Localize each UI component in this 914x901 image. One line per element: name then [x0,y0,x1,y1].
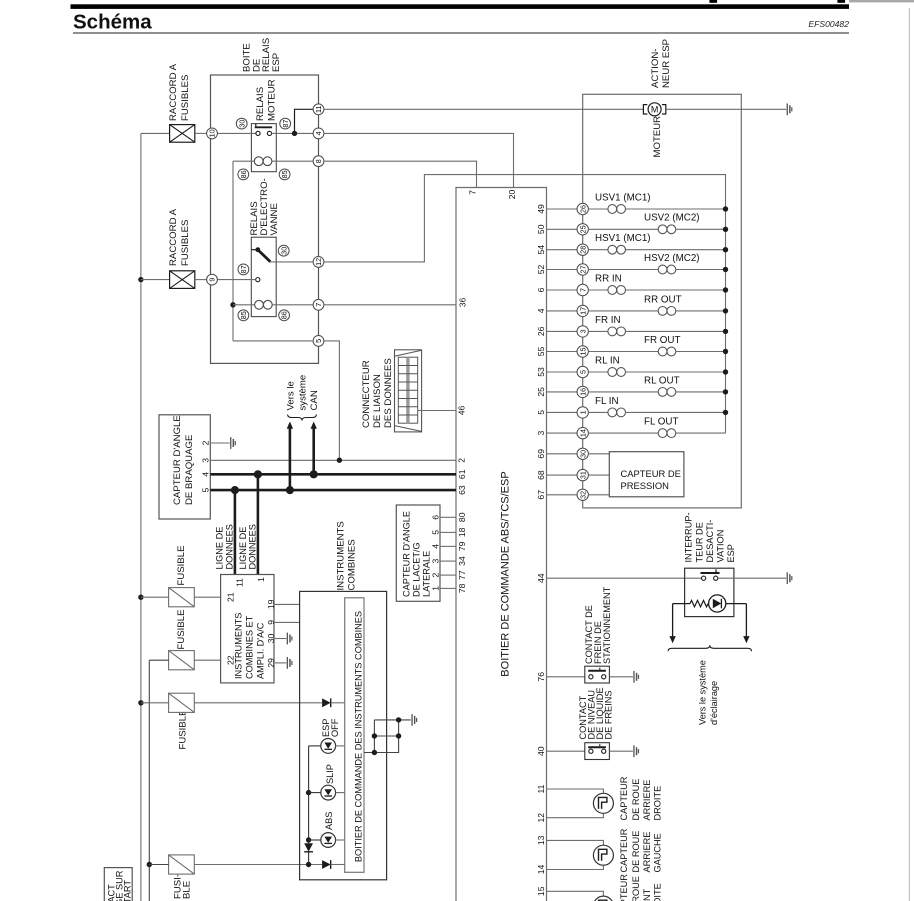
svg-text:BOITIER DE COMMANDE DES INSTRU: BOITIER DE COMMANDE DES INSTRUMENTS COMB… [353,611,363,862]
label: ESP OFF [321,718,340,737]
wire: electrovalve coil right to pin 7 [272,304,313,306]
svg-text:11: 11 [314,106,323,113]
svg-text:26: 26 [578,205,587,213]
svg-text:67: 67 [536,490,546,500]
wire: motor relay coil right to pin 8 [272,160,313,162]
wire: lateral sensor pin 2 to control pin 77 [440,574,456,576]
relay U2: RELAIS D ELECTROVANNE box [251,237,276,316]
wire: diode D3 to cluster control box [331,864,345,866]
wire: blade output to pin 12 [270,261,313,263]
node: solenoid bus junction row 49 [723,206,728,211]
svg-text:78: 78 [457,583,467,593]
node: solenoid bus junction row 26 [723,329,728,334]
wire: SLIP lamp left [309,792,321,794]
node: junction second bus / fuse 4 [147,862,152,867]
node: junction left bus / fuse 1 [138,595,143,600]
svg-text:LIGNE DE: LIGNE DE [215,527,225,570]
svg-text:1: 1 [256,577,266,582]
node: mesh junction bottom left [372,750,377,755]
svg-text:3: 3 [201,458,211,463]
wire: lateral sensor pin 5 to control pin 18 [440,531,456,533]
solenoid coil HSV2 (MC2) [658,265,676,274]
svg-text:30: 30 [279,247,288,255]
svg-text:46: 46 [457,406,467,416]
resistor R1: illumination resistor [690,600,708,606]
svg-text:BOITIER DE COMMANDE ABS/TCS/ES: BOITIER DE COMMANDE ABS/TCS/ESP [500,471,512,676]
svg-text:CAPTEUR D'ANGLE: CAPTEUR D'ANGLE [172,415,183,505]
svg-text:DE LIAISON: DE LIAISON [372,374,383,428]
wire: control pin 69 to actuator pin 30 [547,453,578,455]
svg-text:MOTEUR: MOTEUR [652,116,663,158]
wire: control pin 6 to actuator pin 7 [547,289,578,291]
wire: data line to cluster pin 11 (thick) [234,490,237,574]
node: solenoid bus junction row 53 [723,369,728,374]
wire: pin10 to relay contact [217,132,255,134]
svg-text:8: 8 [314,159,323,163]
svg-text:FR OUT: FR OUT [644,335,680,346]
ground: cluster pin 30 ground [287,633,293,645]
wire: lateral sensor pin 3 to control pin 34 [440,560,456,562]
wire: bus to fusible link 1 [141,132,170,134]
svg-text:17: 17 [578,307,587,315]
label: ACTIONNEUR ESP [650,39,672,88]
header: top rule bar [71,4,850,9]
switch S3: brake fluid level switch box [585,743,610,760]
svg-text:USV2 (MC2): USV2 (MC2) [644,213,700,224]
svg-text:15: 15 [578,348,587,356]
svg-text:d'éclairage: d'éclairage [709,681,719,725]
wire: ESP OFF lamp feed branch [308,746,310,843]
solenoid coil FL IN [608,408,626,417]
svg-text:DONNEES: DONNEES [248,524,258,569]
wire: fusible link 1 to relay box pin 10 [195,132,207,134]
svg-text:2: 2 [431,572,441,577]
label: LIGNE DE DONNEES (left) [215,524,235,569]
svg-text:PRESSION: PRESSION [621,480,669,491]
svg-text:55: 55 [536,347,546,357]
svg-text:DE ROUE: DE ROUE [631,831,641,873]
wire: lateral sensor pin 1 to control pin 78 [440,587,456,589]
wire: parking brake switch to ground [609,676,633,678]
svg-text:25: 25 [578,225,587,233]
box: ignition switch (cropped) [104,868,132,901]
svg-text:3: 3 [431,558,441,563]
wire: lateral sensor pin 6 to control pin 80 [440,516,456,518]
arrow: to CAN system (left) [287,422,293,491]
wire: solenoid HSV1 (MC1) to bus [626,249,726,251]
box: INSTRUMENTS COMBINES ET AMPLI box [221,575,274,683]
svg-text:RL OUT: RL OUT [644,375,680,386]
pin circle 28 (actuator) [577,244,588,255]
fuse F3 [169,693,195,712]
sensor B6: front right wheel speed sensor (cropped) [593,896,613,901]
svg-text:10: 10 [208,129,217,137]
svg-text:RL IN: RL IN [595,355,620,366]
wire: actuator pin 17 to solenoid RR OUT [588,310,658,312]
relay U2 normally-open terminal [256,278,260,282]
fusible link 2 [170,271,195,289]
svg-text:9: 9 [208,278,217,282]
svg-text:85: 85 [280,170,289,178]
wire: control pin 40 to fluid level switch [547,750,585,752]
svg-text:COMBINES ET: COMBINES ET [245,615,255,679]
wire: control pin 76 to parking brake switch [547,676,585,678]
svg-text:12: 12 [314,258,323,266]
label: Vers le systeme CAN [286,375,321,411]
wire: ESP OFF lamp left [309,745,321,747]
sensor B4: rear right wheel speed sensor [593,793,613,813]
wire: vertical link coil1-coil2 [232,161,234,341]
solenoid coil FL OUT [658,429,676,438]
svg-text:87: 87 [239,265,248,273]
wire: second bus vertical (fuse2 to fuse4) [148,660,150,901]
svg-text:RR IN: RR IN [595,273,622,284]
wire: pin 12 to actuator solenoid bus [324,175,726,434]
svg-text:3: 3 [578,329,587,333]
svg-text:2: 2 [201,440,211,445]
svg-text:6: 6 [431,515,441,520]
wire: solenoid FR IN to bus [626,330,726,332]
label: RACCORD A FUSIBLES (lower) [168,208,191,266]
box: BOITE DE RELAIS ESP [211,75,319,363]
solenoid coil FR IN [608,327,626,336]
fuse F2 [169,651,195,670]
node: solenoid bus junction row 6 [723,287,728,292]
svg-text:FUSIBLES: FUSIBLES [180,75,191,121]
wire: pin 7 to control unit pin 36 [324,304,456,306]
wire: link to pin 5 [233,340,313,342]
svg-text:11: 11 [235,578,245,587]
svg-text:50: 50 [536,224,546,234]
svg-text:28: 28 [578,246,587,254]
svg-text:5: 5 [431,530,441,535]
wire: cluster pin 29 to ground [274,662,286,664]
wire: control pin 13 to rear left sensor [547,840,604,845]
node: mesh junction mid left [372,733,377,738]
wire: control pin 53 to actuator pin 5 [547,371,578,373]
pin circle 5 (relay box) [313,336,324,347]
wire: motor relay coil left to vertical link [233,160,254,162]
wire: steering sensor pin 3 to control pin 2 (thin) [210,459,456,461]
svg-text:FR IN: FR IN [595,315,621,326]
svg-text:ESP: ESP [726,544,736,562]
solenoid coil RL IN [608,368,626,377]
svg-text:CAPTEUR: CAPTEUR [619,776,629,820]
svg-text:NEUR ESP: NEUR ESP [661,39,672,88]
pin circle 86 (electrovalve relay) [279,310,290,321]
pin circle 11 (relay box) [313,104,324,115]
svg-text:63: 63 [457,485,467,495]
wire: diode D2 to fuse4 line [308,852,310,864]
solenoid coil USV2 (MC2) [658,225,676,234]
label: RELAIS MOTEUR [255,79,278,121]
wire: control pin 3 to actuator pin 14 [547,432,578,434]
svg-text:76: 76 [536,672,546,682]
box: instrument cluster assembly [300,591,387,879]
svg-text:DROITE: DROITE [653,786,663,821]
wire: cluster pin 19 to cluster control box [274,603,300,605]
wire: actuator pin 14 to solenoid FL OUT [588,432,658,434]
label: CAPTEUR DE ROUE ARRIERE DROITE [619,776,663,820]
wire: solenoid FL OUT to bus [676,432,726,434]
wire: SLIP lamp to control box [336,792,345,794]
node: mesh junction mid right [396,733,401,738]
svg-text:EFS00482: EFS00482 [808,19,849,29]
header: gray scan edge top right [849,0,914,2]
wire: solenoid FL IN to bus [626,411,726,413]
wire: control pin 52 to actuator pin 27 [547,269,578,271]
wire: illumination left branch [673,603,690,605]
pin circle 85 (motor relay) [279,169,290,180]
pin circle 87 (motor relay) [280,118,291,129]
svg-text:FUSIBLE: FUSIBLE [178,710,189,750]
svg-text:14: 14 [536,865,546,875]
wire: actuator pin 26 to solenoid USV1 (MC1) [588,208,608,210]
svg-text:34: 34 [457,556,467,566]
label: CAPTEUR D ANGLE DE LACET/G LATERALE [402,511,432,597]
svg-text:5: 5 [536,410,546,415]
svg-text:ARRIERE: ARRIERE [642,832,652,873]
svg-text:HSV1 (MC1): HSV1 (MC1) [595,233,651,244]
ground: cluster control box ground [411,714,417,726]
wire: fuse 3 to cluster control box [194,702,322,704]
svg-text:AVANT: AVANT [642,888,652,901]
svg-text:HSV2 (MC2): HSV2 (MC2) [644,253,700,264]
wire: motor feed row pin11 to ESP motor [324,108,644,110]
wire: ground mesh middle link [374,735,398,737]
wire: data line to cluster pin 1 (thick) [257,474,260,574]
wire: solenoid FR OUT to bus [676,351,726,353]
svg-text:FUSIBLES: FUSIBLES [180,220,191,266]
svg-text:36: 36 [458,298,468,308]
node: junction pin4 branch [292,131,297,136]
svg-text:3: 3 [536,430,546,435]
ground: fluid level switch ground [633,745,639,757]
wire: control pin 44 to ESP deactivation switch [547,577,702,579]
svg-text:16: 16 [578,388,587,396]
svg-text:4: 4 [536,308,546,313]
node: mesh junction top right [396,717,401,722]
fuse F1 [169,588,195,607]
pin circle 9 (relay box) [207,274,218,285]
wire: second bus to fuse 2 [149,659,168,661]
wire: control pin 49 to actuator pin 26 [547,208,578,210]
node: junction ABS lamp branch [306,837,311,842]
pin circle 17 (actuator) [577,305,588,316]
label: CONTACT DE NIVEAU DE LIQUIDE DE FREINS [578,687,614,739]
svg-text:87: 87 [281,120,290,128]
svg-text:ACTION-: ACTION- [650,49,661,88]
svg-text:RACCORD A: RACCORD A [168,208,179,266]
motor M1: ESP pump motor [643,103,665,116]
pin circle 27 (actuator) [577,264,588,275]
brace: lighting system group [668,645,752,651]
svg-text:ARRIERE: ARRIERE [642,780,652,821]
wire: fusible link 2 to relay box pin 9 [195,279,207,281]
header: cropped glyph mark 1 [709,0,717,3]
wire: actuator pin 30 to pressure sensor [588,453,609,455]
wire: pin 8 to control unit pin 7 [324,161,477,187]
svg-text:BLE: BLE [182,881,193,899]
wire: control pin 68 to actuator pin 31 [547,474,578,476]
svg-text:52: 52 [536,265,546,275]
wire: solenoid USV1 (MC1) to bus [626,208,726,210]
svg-text:ABS: ABS [324,812,334,830]
wire: actuator pin 31 to pressure sensor [588,474,609,476]
pin circle 7 (actuator) [577,284,588,295]
wire: actuator pin 16 to solenoid RL OUT [588,391,658,393]
sensor B5: rear left wheel speed sensor [593,845,613,865]
svg-text:Vers le: Vers le [286,381,297,410]
svg-text:CAPTEUR: CAPTEUR [619,828,629,872]
wire: actuator pin 25 to solenoid USV2 (MC2) [588,228,658,230]
node: solenoid bus junction row 54 [723,247,728,252]
switch S1 terminal right [714,576,718,580]
diode D1: on fuse3 lamp feed [322,698,331,707]
ground: motor ground [787,103,793,115]
pin circle 10 (relay box) [207,128,218,139]
diode D2: lamp branch to fuse4 line [304,843,313,852]
wire: cluster pin 30 to ground [274,638,286,640]
pin circle 31 (actuator) [577,469,588,480]
svg-text:MARCHE OU START: MARCHE OU START [123,880,133,901]
label: CAPTEUR DE PRESSION [621,468,681,491]
box: BOITIER DE COMMANDE ABS/TCS/ESP [456,188,547,901]
connector J1: data link connector [395,350,422,432]
svg-text:15: 15 [536,886,546,896]
relay U2 switch pivot stub [251,249,255,251]
sensor B2: CAPTEUR D ANGLE DE BRAQUAGE box [159,415,210,519]
label: CAPTEUR D ANGLE DE BRAQUAGE [172,415,195,505]
label: ignition switch (cropped) [107,870,133,901]
wire: second bus to fuse 4 [149,864,168,866]
wire: actuator pin 27 to solenoid HSV2 (MC2) [588,269,658,271]
svg-text:CAN: CAN [309,390,320,410]
relay U1 contact blade [255,124,272,128]
svg-text:INSTRUMENTS: INSTRUMENTS [336,521,347,590]
relay U2 switch blade [255,247,270,261]
wire: control pin 55 to actuator pin 15 [547,351,578,353]
wire: pin 4 to control unit pin 20 [324,133,514,187]
label: CONNECTEUR DE LIAISON DES DONNEES [361,358,394,428]
svg-text:7: 7 [578,288,587,292]
svg-text:2: 2 [457,458,467,463]
wire: control pin 5 to actuator pin 1 [547,411,578,413]
wire: fuse 2 to cluster pin 22 [194,659,220,661]
wire: solenoid RR OUT to bus [676,310,726,312]
svg-text:32: 32 [578,491,587,499]
wire: ABS lamp to control box [336,839,345,841]
label: INSTRUMENTS COMBINES [336,521,358,590]
pin circle 15 (actuator) [577,346,588,357]
relay U1 coil [254,157,272,166]
page scan right edge line [908,8,910,901]
svg-text:RELAIS: RELAIS [255,87,266,121]
svg-text:27: 27 [578,266,587,274]
svg-text:DES DONNEES: DES DONNEES [383,358,394,428]
svg-text:AMPLI. D'A/C: AMPLI. D'A/C [256,622,266,679]
svg-text:12: 12 [536,813,546,823]
wire: solenoid HSV2 (MC2) to bus [676,269,726,271]
wire: actuator pin 32 to pressure sensor [588,494,609,496]
svg-text:DE ROUE: DE ROUE [631,779,641,821]
svg-text:FUSIBLE: FUSIBLE [176,610,187,650]
svg-text:18: 18 [457,527,467,537]
svg-text:5: 5 [578,370,587,374]
svg-text:30: 30 [578,450,587,458]
node: solenoid bus junction row 25 [723,389,728,394]
wire: relay contact to pin 4 node [272,132,314,134]
svg-text:53: 53 [536,367,546,377]
pin circle 30 (electrovalve relay) [278,245,289,256]
wire: bus to fusible link 2 [141,279,170,281]
pin circle 16 (actuator) [577,386,588,397]
ground: ESP switch ground [787,572,793,584]
pin circle 3 (actuator) [577,326,588,337]
pin circle 30 (actuator) [577,448,588,459]
svg-text:OFF: OFF [330,718,340,737]
wire: fuse 1 to cluster pin 21 [194,596,220,598]
lamp L1: ESP OFF warning lamp [321,739,336,754]
node: junction left bus / fuse 3 [138,700,143,705]
switch S1 blade [701,569,720,573]
brace: CAN arrows group [288,415,317,421]
svg-text:INSTRUMENTS: INSTRUMENTS [234,613,244,679]
label: CONTACT DE FREIN DE STATIONNEMENT [584,586,612,664]
wire: control pin 26 to actuator pin 3 [547,330,578,332]
wire: electrovalve coil left [233,304,255,306]
wire: control pin 14 to rear left sensor [547,865,604,869]
svg-text:54: 54 [536,245,546,255]
svg-text:49: 49 [536,204,546,214]
wire: control pin 11 to rear right sensor [547,789,604,793]
wire: solenoid RL IN to bus [626,371,726,373]
svg-text:DE BRAQUAGE: DE BRAQUAGE [184,435,195,505]
svg-text:DE LACET/G: DE LACET/G [412,542,422,597]
solenoid coil HSV1 (MC1) [608,245,626,254]
svg-text:CAPTEUR: CAPTEUR [619,874,629,901]
node: solenoid bus junction row 52 [723,267,728,272]
wire: control pin 15 to front right sensor [547,891,604,896]
svg-text:61: 61 [457,469,467,479]
node: solenoid bus junction row 50 [723,227,728,232]
sensor B1: CAPTEUR DE PRESSION box [609,452,684,497]
pin circle 12 (relay box) [313,257,324,268]
svg-text:40: 40 [536,746,546,756]
svg-text:79: 79 [457,541,467,551]
wire: bus to fuse 3 [141,702,169,704]
wire: switch to ground [718,577,786,579]
ground: steering sensor ground [230,437,236,449]
wire: left supply bus vertical [140,133,142,901]
wire: control pin 50 to actuator pin 25 [547,228,578,230]
svg-text:1: 1 [431,586,441,591]
svg-text:4: 4 [201,472,211,477]
title underline [73,32,849,34]
svg-text:RR OUT: RR OUT [644,294,682,305]
pin circle 87 (electrovalve relay) [238,264,249,275]
pin circle 14 (actuator) [577,427,588,438]
lamp L2: SLIP warning lamp [321,785,336,800]
wire: illumination right branch [726,603,747,605]
svg-text:7: 7 [314,303,323,307]
wire: steering sensor pin 2 to ground [210,442,229,444]
box: BOITIER DE COMMANDE DES INSTRUMENTS COMBINES [345,598,364,873]
relay U1 contact terminal left [256,131,260,135]
solenoid coil RR IN [608,286,626,295]
svg-text:13: 13 [536,835,546,845]
svg-text:11: 11 [536,784,546,793]
